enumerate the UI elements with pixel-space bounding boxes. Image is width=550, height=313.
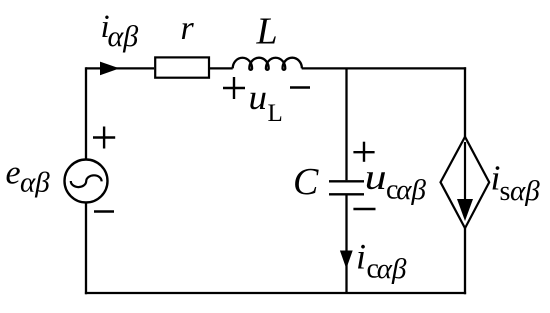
resistor r: [155, 57, 209, 77]
minus sign of source: [94, 210, 114, 213]
minus sign of u_L: [290, 86, 310, 89]
svg-text:e: e: [6, 155, 21, 192]
plus sign of u_c: [353, 142, 374, 162]
arrow inside diamond: [464, 142, 466, 202]
wire resistor-to-inductor: [210, 67, 233, 69]
plus sign of u_L: [223, 77, 245, 99]
plus sign of source: [93, 127, 115, 149]
svg-text:αβ: αβ: [108, 20, 139, 53]
wire top-left horizontal: [86, 67, 154, 69]
wire inductor-to-right-corner: [302, 67, 466, 69]
svg-text:s: s: [500, 176, 511, 207]
svg-text:L: L: [268, 100, 283, 127]
current source diamond: [441, 137, 490, 228]
svg-text:L: L: [256, 11, 278, 53]
svg-text:i: i: [356, 237, 366, 277]
svg-text:αβ: αβ: [510, 175, 540, 207]
wire left vertical lower: [85, 203, 87, 295]
voltage source e_ab circle: [65, 160, 108, 203]
svg-text:u: u: [365, 157, 387, 197]
wire capacitor branch lower: [345, 195, 347, 293]
current arrow i_c (down): [340, 251, 353, 269]
current arrow i_ab on top wire: [100, 62, 120, 76]
svg-text:r: r: [181, 10, 195, 47]
wire bottom horizontal: [85, 292, 466, 294]
wire left vertical upper: [85, 67, 87, 159]
sine wave inside source: [71, 175, 102, 187]
svg-text:αβ: αβ: [20, 167, 50, 199]
minus sign of u_c: [353, 208, 375, 211]
svg-text:αβ: αβ: [396, 174, 426, 206]
svg-text:u: u: [249, 78, 268, 117]
svg-text:αβ: αβ: [377, 253, 407, 285]
wire right vertical upper: [464, 67, 466, 137]
svg-text:C: C: [293, 161, 319, 203]
wire right vertical lower: [464, 228, 466, 294]
inductor L (4 humps with back-loops): [233, 58, 302, 70]
wire capacitor branch upper: [345, 68, 347, 180]
capacitor C plates: [329, 181, 364, 194]
